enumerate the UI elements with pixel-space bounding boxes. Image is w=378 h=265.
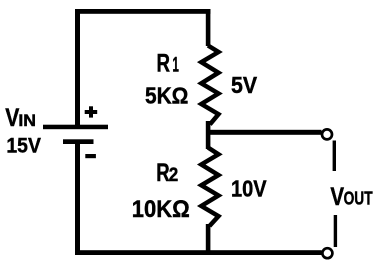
svg-text:5V: 5V <box>231 72 257 98</box>
terminal: output bottom (open circle) <box>322 248 332 258</box>
wire: R2 bottom stub to bottom rail <box>206 224 211 252</box>
svg-text:15V: 15V <box>6 133 41 157</box>
svg-text:IN: IN <box>18 112 36 130</box>
battery VIN negative plate <box>63 139 94 144</box>
wire: output link upper (top terminal down to VOUT label) <box>333 141 336 172</box>
label R2 <box>156 159 178 187</box>
svg-text:R: R <box>156 159 169 187</box>
svg-text:1: 1 <box>172 54 179 77</box>
battery VIN positive plate <box>43 125 108 130</box>
wire: output link lower (VOUT label down to bottom terminal) <box>334 215 337 247</box>
svg-text:R: R <box>157 50 171 78</box>
battery VIN plus sign <box>85 106 98 117</box>
label 10V (voltage across R2) <box>231 176 267 202</box>
wire: left branch top (battery + up to top rail) <box>75 9 80 127</box>
wire: top rail <box>75 9 211 14</box>
wire: right branch top (top rail down to R1) <box>206 9 211 46</box>
value label 10Kohm <box>132 196 190 223</box>
wire: left branch bottom (battery - down to bottom rail) <box>75 142 80 255</box>
svg-text:5KΩ: 5KΩ <box>145 83 188 109</box>
wire: junction stub between R1 and R2 <box>206 121 211 149</box>
resistor R1 <box>201 46 218 125</box>
svg-text:10V: 10V <box>231 176 267 202</box>
value label 5Kohm <box>145 83 188 109</box>
svg-text:10KΩ: 10KΩ <box>132 196 190 223</box>
value label 15V <box>6 133 41 157</box>
svg-text:OUT: OUT <box>344 188 373 208</box>
node: R1-R2 junction wire to output terminal <box>207 130 322 135</box>
terminal: output top (open circle) <box>322 129 332 139</box>
svg-text:2: 2 <box>169 165 179 186</box>
battery VIN minus sign <box>85 154 96 158</box>
label R1 <box>157 50 180 78</box>
label VOUT <box>330 183 372 211</box>
resistor R2 <box>201 148 218 227</box>
label 5V (voltage across R1) <box>231 72 257 98</box>
svg-text:V: V <box>330 183 344 211</box>
label VIN <box>5 104 36 132</box>
wire: bottom rail <box>75 250 322 255</box>
